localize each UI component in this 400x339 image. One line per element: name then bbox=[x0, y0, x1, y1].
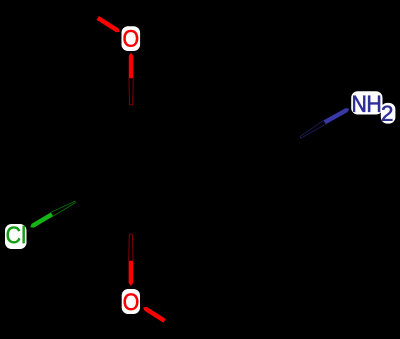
atom label Cl - l bbox=[23, 226, 25, 243]
wire: top methoxy CH3-O bond (O-colored half, pointed at label end) bbox=[97, 16, 120, 32]
atom label Cl - C bbox=[7, 227, 20, 244]
wire: Cl to ring C5 bond, Cl-colored half (pointed at label end) bbox=[30, 212, 53, 227]
halo for Cl label bbox=[5, 224, 27, 249]
halo for NH label bbox=[351, 91, 382, 114]
wire: bottom O to ring C4 bond, carbon-half remnant outline bbox=[129, 234, 133, 261]
wire: bottom O to ring C4 bond, O half (pointed at label end) bbox=[129, 261, 134, 286]
wire: top O to ring C1 bond, carbon-half remnant outline bbox=[129, 78, 133, 105]
halo for bottom O label bbox=[122, 289, 140, 314]
atom label O (bottom methoxy) bbox=[124, 293, 139, 310]
halo for top O label bbox=[122, 26, 141, 51]
wire: top O to ring C1 bond, O half (pointed at label end) bbox=[129, 53, 134, 78]
atom label NH2 - subscript 2 bbox=[382, 106, 392, 121]
halo for subscript 2 bbox=[381, 103, 396, 124]
wire: Cl bond carbon-half remnant outline bbox=[51, 201, 75, 216]
wire: bottom methoxy O-CH3 bond (O-colored half, pointed at label end) bbox=[143, 307, 166, 323]
atom label NH2 - N bbox=[353, 96, 365, 112]
wire: NH2 to CH2 bond, N-colored half (pointed at label end) bbox=[324, 108, 350, 124]
atom label NH2 - H bbox=[368, 96, 380, 112]
atom label O (top methoxy) bbox=[124, 30, 139, 47]
wire: N bond carbon-half remnant outline bbox=[300, 120, 326, 138]
